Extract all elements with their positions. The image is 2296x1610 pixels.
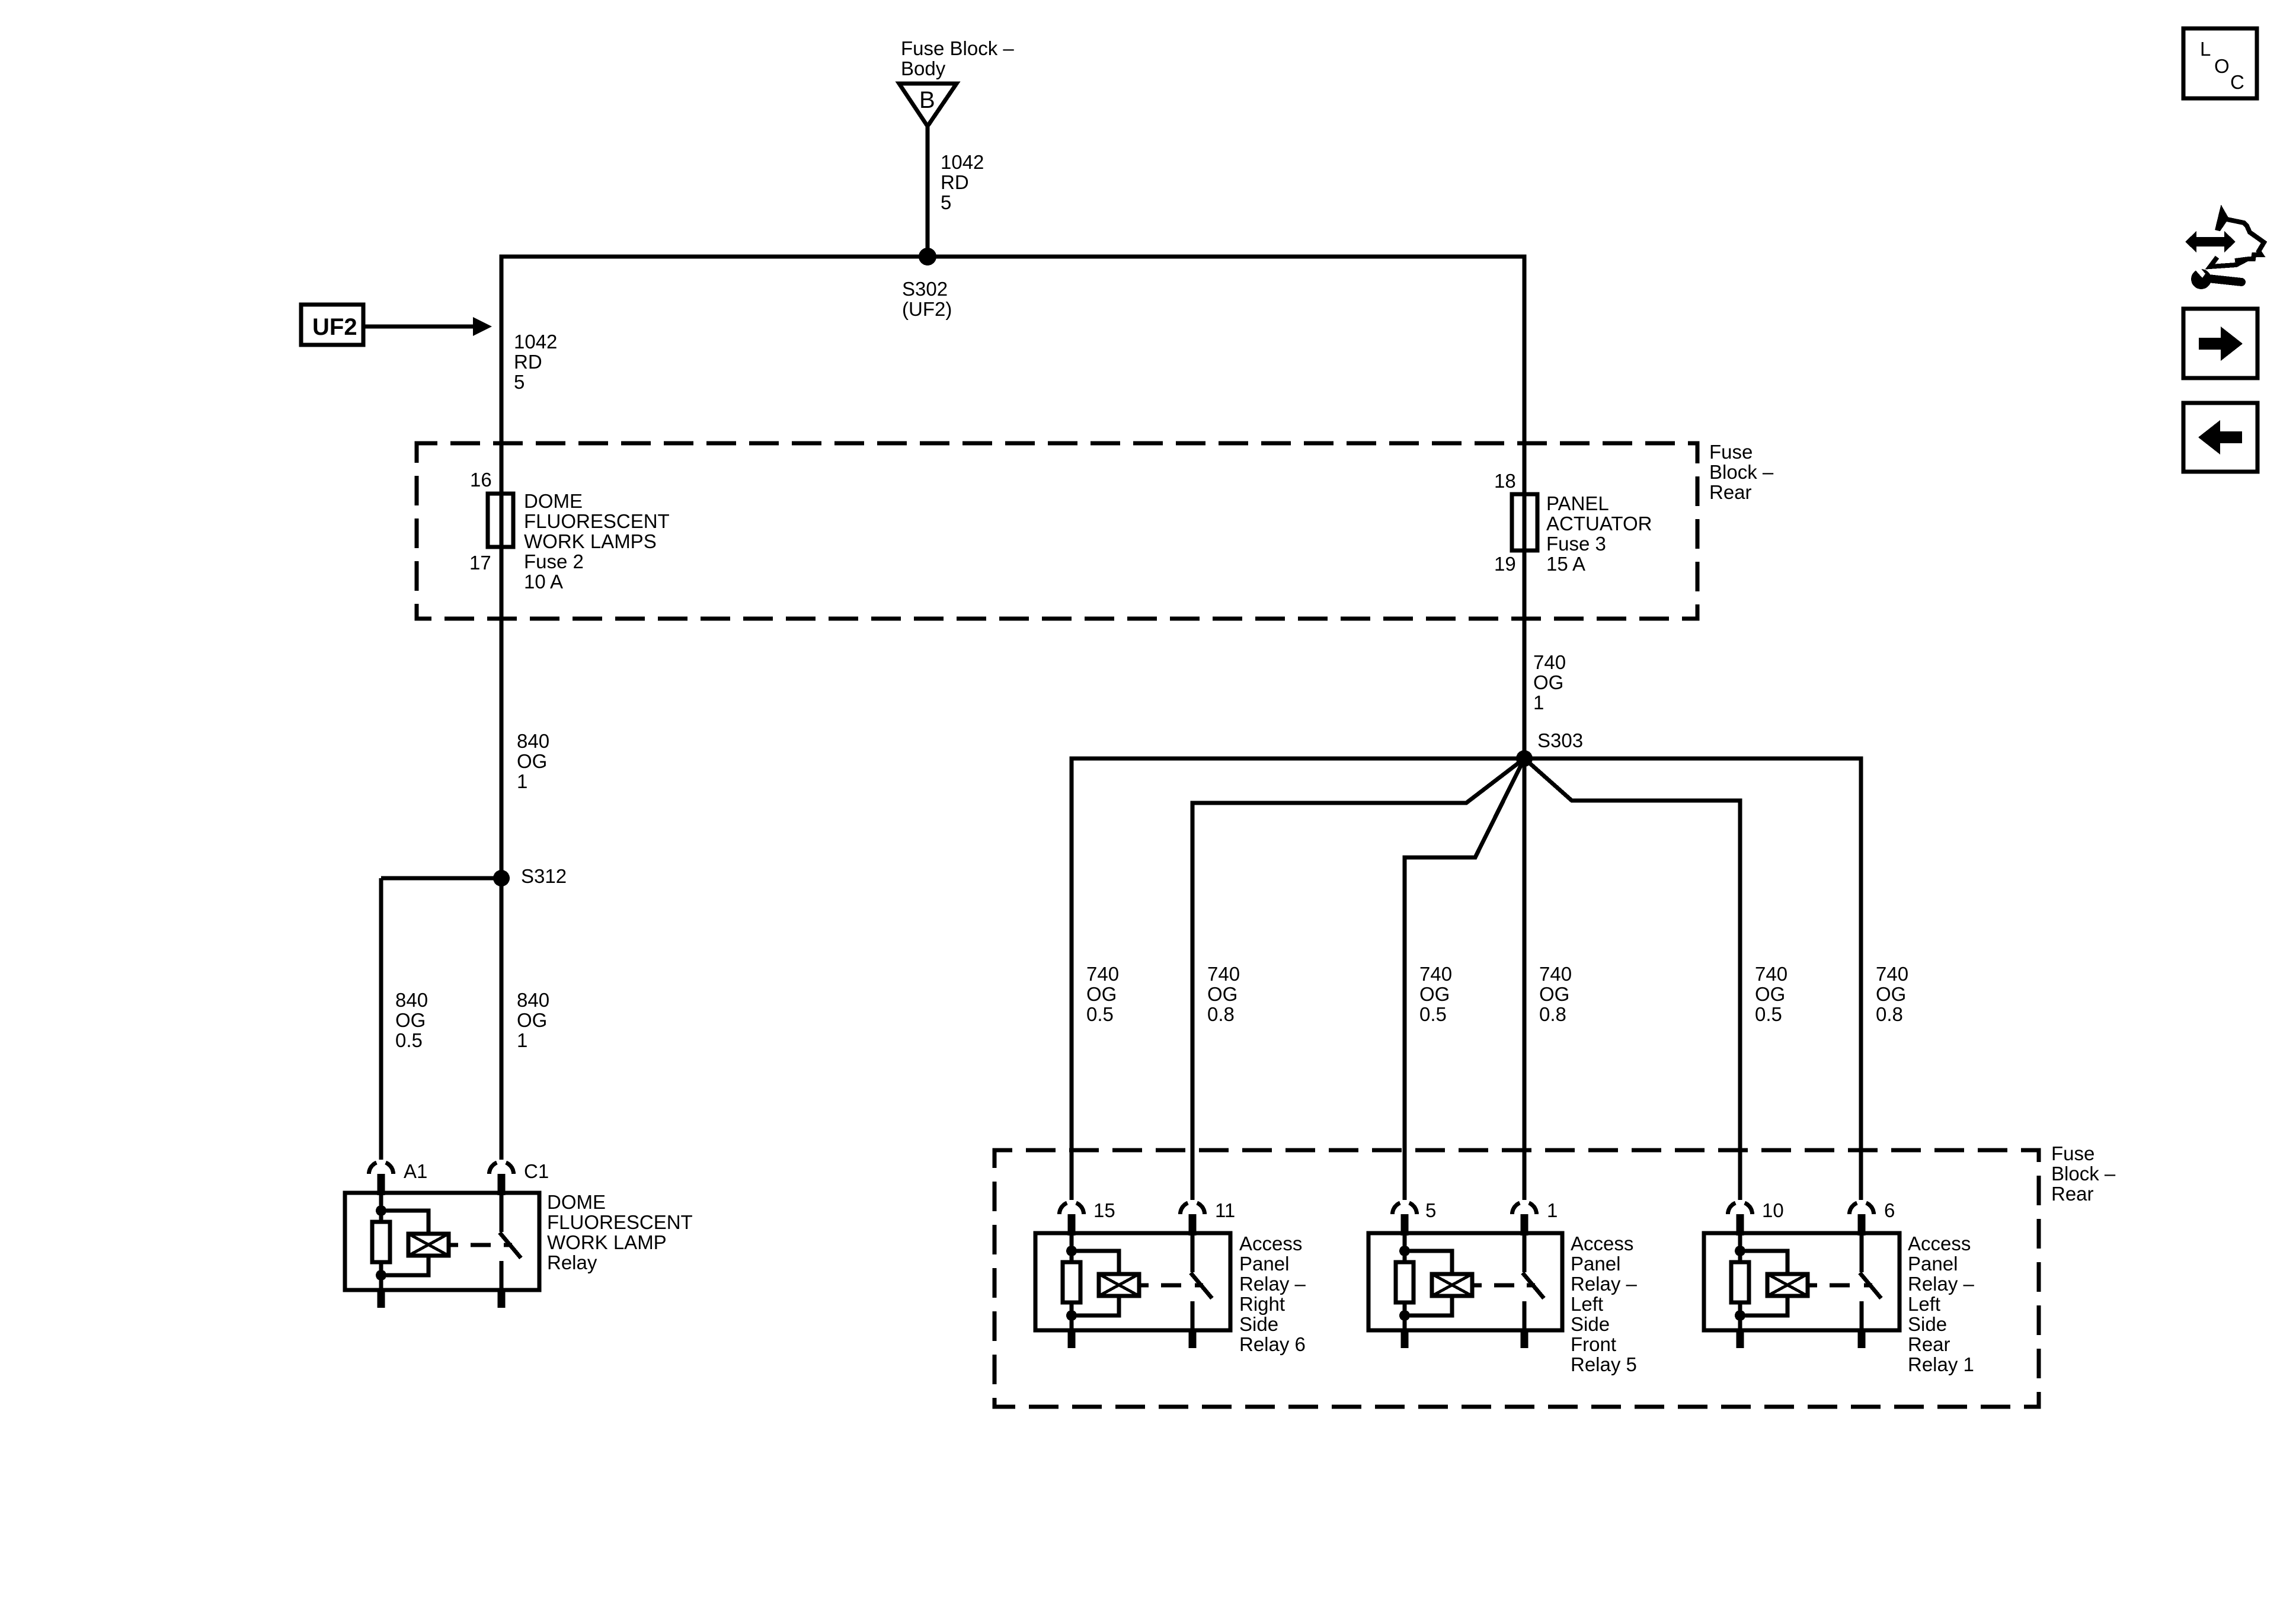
- svg-text:OG: OG: [517, 750, 547, 772]
- svg-text:0.5: 0.5: [1086, 1003, 1114, 1025]
- relay K5: Access Panel Relay Left Side Front: [1368, 1203, 1562, 1348]
- dashed actuating link relay6: [1139, 1283, 1149, 1288]
- wire: fuse F3 to S303: [1523, 552, 1527, 758]
- connector arc relay6 left pin: [1060, 1203, 1067, 1214]
- svg-text:1042: 1042: [514, 331, 557, 353]
- svg-text:Rear: Rear: [1908, 1333, 1950, 1355]
- switch relay6 moving contact: [1191, 1233, 1195, 1272]
- svg-text:15 A: 15 A: [1546, 553, 1585, 575]
- wire: S303 to relay5 pin5: [1405, 758, 1524, 1200]
- svg-text:(UF2): (UF2): [902, 298, 952, 320]
- relay box relay1: [1704, 1233, 1900, 1330]
- wire relay5 coil leg: [1403, 1233, 1407, 1330]
- icon: forward arrow box: [2183, 309, 2257, 378]
- svg-text:Relay –: Relay –: [1571, 1273, 1638, 1295]
- svg-text:0.5: 0.5: [1419, 1003, 1447, 1025]
- pin stub relay1 bottom left: [1737, 1330, 1744, 1348]
- icon vehicle-head outline: [2217, 211, 2264, 261]
- pin stub relay5 left: [1401, 1214, 1409, 1235]
- connector arc relay6 right pin: [1181, 1203, 1188, 1214]
- svg-text:OG: OG: [1207, 983, 1237, 1005]
- svg-text:C1: C1: [524, 1160, 549, 1182]
- svg-text:C: C: [2230, 71, 2244, 93]
- svg-text:1: 1: [517, 1029, 527, 1051]
- pin stub relay1 left: [1737, 1214, 1744, 1235]
- pin stub dome bottom left: [378, 1290, 385, 1308]
- svg-text:Left: Left: [1908, 1293, 1940, 1315]
- wire: S303 to relay1 pin10: [1524, 758, 1740, 1200]
- icon: back arrow box: [2183, 403, 2257, 472]
- svg-text:PANEL: PANEL: [1546, 492, 1609, 514]
- pin stub relay6 right: [1189, 1214, 1197, 1235]
- svg-text:Relay –: Relay –: [1908, 1273, 1975, 1295]
- relay K6: Access Panel Relay Right Side: [1035, 1203, 1230, 1348]
- svg-text:Block –: Block –: [2051, 1163, 2116, 1185]
- svg-text:OG: OG: [1533, 671, 1563, 693]
- svg-text:0.8: 0.8: [1876, 1003, 1903, 1025]
- svg-text:Rear: Rear: [1709, 481, 1752, 503]
- switch relay1 moving contact: [1860, 1233, 1864, 1272]
- svg-text:Access: Access: [1571, 1233, 1633, 1254]
- connector arc dome left pin: [369, 1163, 377, 1174]
- svg-text:0.8: 0.8: [1207, 1003, 1235, 1025]
- svg-text:FLUORESCENT: FLUORESCENT: [524, 510, 670, 532]
- svg-text:OG: OG: [395, 1009, 426, 1031]
- icon: vehicle head with double arrow and wrench: [2185, 210, 2264, 289]
- svg-text:UF2: UF2: [312, 314, 357, 340]
- wire: S312 down to C1: [500, 878, 504, 1160]
- svg-text:19: 19: [1494, 553, 1516, 575]
- svg-text:Fuse 2: Fuse 2: [524, 550, 584, 572]
- pin stub relay1 bottom right: [1858, 1330, 1866, 1348]
- wire: main bus from left fuse leg up, across, down to right fuse leg: [501, 257, 1524, 497]
- connector arc relay1 right pin: [1850, 1203, 1857, 1214]
- svg-text:S312: S312: [521, 865, 567, 887]
- wire: left branch down to A1: [379, 878, 383, 1160]
- icon wrench: [2208, 279, 2241, 282]
- svg-text:5: 5: [514, 371, 525, 393]
- fuse F2: DOME FLUORESCENT WORK LAMPS Fuse 2: [500, 494, 504, 547]
- svg-text:0.5: 0.5: [1755, 1003, 1782, 1025]
- svg-text:15: 15: [1093, 1199, 1115, 1221]
- svg-text:OG: OG: [1419, 983, 1450, 1005]
- svg-text:10 A: 10 A: [524, 571, 563, 593]
- svg-text:Side: Side: [1239, 1313, 1278, 1335]
- junction dot relay1 top: [1735, 1246, 1745, 1256]
- svg-text:Fuse Block –: Fuse Block –: [901, 37, 1014, 59]
- svg-text:Right: Right: [1239, 1293, 1285, 1315]
- svg-text:11: 11: [1215, 1199, 1235, 1221]
- wire relay6 coil leg: [1070, 1233, 1074, 1330]
- svg-text:740: 740: [1533, 651, 1566, 673]
- relay K0: DOME FLUORESCENT WORK LAMP Relay: [345, 1163, 539, 1308]
- svg-text:Relay –: Relay –: [1239, 1273, 1306, 1295]
- svg-text:Rear: Rear: [2051, 1183, 2094, 1205]
- switch relay1 fixed contact: [1860, 1301, 1864, 1330]
- junction dot dome top: [376, 1205, 386, 1216]
- svg-text:840: 840: [517, 989, 549, 1011]
- svg-text:5: 5: [941, 191, 951, 213]
- icon: LOC reference box: [2183, 28, 2257, 98]
- svg-text:DOME: DOME: [547, 1191, 606, 1213]
- svg-text:Panel: Panel: [1239, 1253, 1289, 1275]
- junction dot relay6 bottom: [1066, 1310, 1077, 1321]
- connector arc dome right pin: [490, 1163, 497, 1174]
- svg-text:5: 5: [1425, 1199, 1436, 1221]
- switch relay6 fixed contact: [1191, 1301, 1195, 1330]
- svg-text:Block –: Block –: [1709, 461, 1774, 483]
- dashed actuating link relay5: [1472, 1283, 1482, 1288]
- svg-text:Panel: Panel: [1908, 1253, 1958, 1275]
- svg-text:S303: S303: [1537, 729, 1583, 751]
- svg-text:WORK LAMPS: WORK LAMPS: [524, 530, 657, 552]
- svg-text:RD: RD: [514, 351, 542, 373]
- junction dot relay6 top: [1066, 1246, 1077, 1256]
- icon vehicle-head ear wedge: [2215, 210, 2228, 231]
- svg-text:Relay 5: Relay 5: [1571, 1353, 1637, 1375]
- resistor relay1: [1731, 1262, 1749, 1302]
- switch dome moving contact: [500, 1193, 504, 1232]
- node S302 junction dot: [919, 248, 936, 265]
- svg-text:RD: RD: [941, 171, 969, 193]
- svg-text:740: 740: [1419, 963, 1452, 985]
- wire: UF2 arrow to wire: [363, 325, 474, 329]
- svg-text:Body: Body: [901, 57, 946, 79]
- icon vehicle-head jaw: [2210, 257, 2247, 267]
- wire dome coil parallel branch: [381, 1211, 428, 1275]
- svg-text:Relay: Relay: [547, 1251, 597, 1273]
- resistor dome: [372, 1222, 390, 1262]
- fuse F3: PANEL ACTUATOR Fuse 3: [1523, 494, 1527, 552]
- svg-text:B: B: [919, 87, 935, 113]
- wire relay1 coil parallel branch: [1740, 1251, 1787, 1315]
- icon double arrow: [2185, 231, 2236, 252]
- wire relay1 coil leg: [1738, 1233, 1742, 1330]
- pin stub relay5 bottom left: [1401, 1330, 1409, 1348]
- svg-text:Front: Front: [1571, 1333, 1616, 1355]
- relay coil relay5: [1432, 1274, 1472, 1296]
- junction dot relay5 top: [1399, 1246, 1410, 1256]
- svg-text:A1: A1: [404, 1160, 427, 1182]
- svg-text:OG: OG: [517, 1009, 547, 1031]
- svg-text:740: 740: [1876, 963, 1908, 985]
- junction dot relay1 bottom: [1735, 1310, 1745, 1321]
- svg-text:S302: S302: [902, 278, 948, 300]
- wire dome coil leg: [379, 1193, 383, 1290]
- pin stub relay5 right: [1521, 1214, 1528, 1235]
- svg-text:16: 16: [470, 469, 492, 491]
- svg-text:Fuse: Fuse: [1709, 441, 1753, 463]
- connector arc relay5 left pin: [1393, 1203, 1400, 1214]
- pin stub relay5 bottom right: [1521, 1330, 1528, 1348]
- svg-text:ACTUATOR: ACTUATOR: [1546, 513, 1652, 534]
- svg-text:OG: OG: [1539, 983, 1569, 1005]
- relay coil relay6: [1099, 1274, 1139, 1296]
- svg-text:Fuse 3: Fuse 3: [1546, 533, 1606, 555]
- relay box relay6: [1035, 1233, 1230, 1330]
- resistor relay5: [1396, 1262, 1414, 1302]
- svg-text:Access: Access: [1239, 1233, 1302, 1254]
- switch relay5 moving contact: [1523, 1233, 1527, 1272]
- svg-text:FLUORESCENT: FLUORESCENT: [547, 1211, 693, 1233]
- wire: S303 to relay6 pin11: [1192, 758, 1524, 1200]
- svg-text:OG: OG: [1755, 983, 1785, 1005]
- fuse block rear dashed outline (upper): [417, 443, 1697, 619]
- svg-text:17: 17: [469, 552, 491, 574]
- svg-text:1: 1: [1533, 692, 1544, 713]
- svg-text:840: 840: [517, 730, 549, 752]
- power feed triangle B: [899, 84, 957, 126]
- junction dot dome bottom: [376, 1270, 386, 1281]
- relay box dome: [345, 1193, 539, 1290]
- relay coil relay1: [1767, 1274, 1808, 1296]
- junction dot relay5 bottom: [1399, 1310, 1410, 1321]
- UF2 reference box: [301, 305, 363, 345]
- node S303 junction: [1516, 750, 1533, 767]
- svg-text:WORK LAMP: WORK LAMP: [547, 1231, 667, 1253]
- svg-text:740: 740: [1755, 963, 1787, 985]
- svg-text:840: 840: [395, 989, 428, 1011]
- svg-text:OG: OG: [1086, 983, 1117, 1005]
- relay coil dome: [408, 1234, 449, 1256]
- svg-text:0.8: 0.8: [1539, 1003, 1566, 1025]
- wire relay6 coil parallel branch: [1072, 1251, 1119, 1315]
- svg-text:10: 10: [1762, 1199, 1784, 1221]
- svg-text:Side: Side: [1571, 1313, 1610, 1335]
- relay box relay5: [1368, 1233, 1562, 1330]
- svg-text:OG: OG: [1876, 983, 1906, 1005]
- svg-text:740: 740: [1539, 963, 1572, 985]
- svg-text:DOME: DOME: [524, 490, 583, 512]
- pin stub relay6 bottom left: [1068, 1330, 1076, 1348]
- svg-text:Panel: Panel: [1571, 1253, 1620, 1275]
- resistor relay6: [1063, 1262, 1080, 1302]
- wire: B triangle to S302: [926, 126, 930, 257]
- pin stub relay6 left: [1068, 1214, 1076, 1235]
- wire relay5 coil parallel branch: [1405, 1251, 1452, 1315]
- wire: fuse F2 to S312: [500, 547, 504, 878]
- wire: S303 straight down to relay5 pin1: [1523, 758, 1527, 1200]
- dashed actuating link relay1: [1808, 1283, 1817, 1288]
- svg-text:0.5: 0.5: [395, 1029, 423, 1051]
- wire: S312 branch left: [381, 876, 501, 881]
- connector arc relay5 right pin: [1512, 1203, 1520, 1214]
- relay K1: Access Panel Relay Left Side Rear: [1704, 1203, 1900, 1348]
- svg-text:1: 1: [1547, 1199, 1558, 1221]
- svg-text:Access: Access: [1908, 1233, 1971, 1254]
- svg-text:Fuse: Fuse: [2051, 1142, 2094, 1164]
- svg-text:1042: 1042: [941, 151, 984, 173]
- svg-text:O: O: [2214, 55, 2230, 77]
- wire: S303 outer bus to relay6 pin15 and relay1 pin6: [1072, 758, 1861, 1200]
- dashed actuating link dome: [449, 1243, 458, 1247]
- svg-text:6: 6: [1884, 1199, 1895, 1221]
- pin stub dome left: [378, 1174, 385, 1195]
- pin stub relay1 right: [1858, 1214, 1866, 1235]
- switch relay5 fixed contact: [1523, 1301, 1527, 1330]
- pin stub dome bottom right: [498, 1290, 506, 1308]
- pin stub relay6 bottom right: [1189, 1330, 1197, 1348]
- svg-text:L: L: [2200, 38, 2211, 60]
- svg-text:Relay 6: Relay 6: [1239, 1333, 1306, 1355]
- svg-text:18: 18: [1494, 470, 1516, 492]
- switch dome fixed contact: [500, 1261, 504, 1290]
- svg-text:1: 1: [517, 770, 527, 792]
- svg-text:Relay 1: Relay 1: [1908, 1353, 1974, 1375]
- svg-text:Side: Side: [1908, 1313, 1947, 1335]
- svg-text:Left: Left: [1571, 1293, 1603, 1315]
- node S312 junction: [493, 870, 510, 886]
- fuse block rear dashed outline (lower): [994, 1150, 2039, 1407]
- connector arc relay1 left pin: [1728, 1203, 1736, 1214]
- pin stub dome right: [498, 1174, 506, 1195]
- svg-text:740: 740: [1207, 963, 1240, 985]
- svg-text:740: 740: [1086, 963, 1119, 985]
